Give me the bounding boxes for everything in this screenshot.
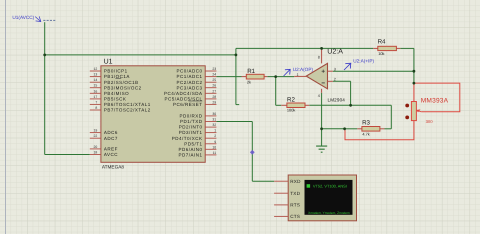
U1 left pin 14 PB2/SS/OC1B <box>90 81 101 83</box>
svg-text:VT52, VT100, ANSI: VT52, VT100, ANSI <box>313 184 347 189</box>
wire pot top (red) <box>413 83 415 101</box>
IC U1 ATMEGA8 body <box>101 66 205 163</box>
svg-text:PC1/ADC1: PC1/ADC1 <box>176 74 202 79</box>
overline SS on PB2 <box>115 78 121 80</box>
svg-text:PB0/ICP1: PB0/ICP1 <box>104 69 128 74</box>
wire PC1 to R1 <box>216 76 241 78</box>
svg-text:15: 15 <box>94 84 98 88</box>
svg-text:17: 17 <box>94 95 98 99</box>
wire top rail to R4 <box>236 47 373 49</box>
U1 right pin 23 PC0/ADC0 <box>205 70 216 72</box>
junction <box>274 75 277 78</box>
svg-text:CTS: CTS <box>290 214 300 219</box>
resistor R1 pins <box>242 76 247 78</box>
wire R3 left to ground rail <box>345 128 358 130</box>
U1 left pin 20 AREF <box>90 148 101 150</box>
U1 right pin 24 PC1/ADC1 <box>205 76 216 78</box>
terminal cursor block <box>307 184 311 188</box>
svg-text:25: 25 <box>212 78 216 82</box>
svg-text:29: 29 <box>212 100 216 104</box>
wire marker diamond <box>250 150 255 155</box>
svg-text:PB5/SCK: PB5/SCK <box>104 97 127 102</box>
op-amp plus sign <box>322 70 325 73</box>
svg-text:300: 300 <box>426 119 434 124</box>
virtual terminal screen <box>305 180 353 215</box>
svg-text:8: 8 <box>318 56 320 60</box>
svg-text:U2:A(+IP): U2:A(+IP) <box>353 59 374 64</box>
op-amp minus sign <box>322 82 325 84</box>
svg-text:7: 7 <box>95 100 97 104</box>
svg-text:PB7/TOSC2/XTAL2: PB7/TOSC2/XTAL2 <box>104 108 151 113</box>
resistor R2 <box>287 103 305 108</box>
wire rail jog up <box>235 48 237 55</box>
resistor R4 <box>378 46 397 50</box>
sheet border <box>5 0 7 234</box>
terminal pin RTS <box>274 204 288 206</box>
U1 right pin 11 PD7/AIN1 <box>205 154 216 156</box>
svg-text:PC2/ADC2: PC2/ADC2 <box>176 80 202 85</box>
svg-text:ADC6: ADC6 <box>104 130 118 135</box>
U1 right pin 1 PD3/INT1 <box>205 132 216 134</box>
wire AVCC down left <box>44 55 46 155</box>
svg-text:14: 14 <box>94 78 98 82</box>
svg-text:11: 11 <box>213 151 217 155</box>
svg-text:AVCC: AVCC <box>104 152 118 157</box>
svg-text:ATMEGA8: ATMEGA8 <box>102 165 124 170</box>
svg-text:10k: 10k <box>378 51 384 56</box>
svg-text:R4: R4 <box>378 39 386 46</box>
svg-text:RXD: RXD <box>290 179 301 184</box>
svg-text:PB6/TOSC1/XTAL1: PB6/TOSC1/XTAL1 <box>104 102 151 107</box>
U1 right pin 28 PC5/ADC5/SCL <box>205 98 216 100</box>
svg-text:22: 22 <box>94 134 98 138</box>
wire op-amp pin3 to pot node <box>333 70 414 72</box>
U1 right pin 30 PD0/RXD <box>205 115 216 117</box>
svg-text:PD4/T0/XCK: PD4/T0/XCK <box>172 136 203 141</box>
svg-text:LM2904: LM2904 <box>328 97 346 102</box>
U1 left pin 12 PB0/ICP1 <box>90 70 101 72</box>
overline RESET on PC6 <box>189 100 203 102</box>
svg-text:2: 2 <box>334 78 336 82</box>
svg-text:12: 12 <box>94 67 98 71</box>
terminal pin CTS <box>274 215 288 217</box>
wire R2 right run <box>309 104 391 106</box>
U1 right pin 29 PC6/RESET <box>205 103 216 105</box>
op-amp input pin 2 stub <box>328 80 333 82</box>
junction <box>235 54 238 57</box>
U1 left pin 22 ADC7 <box>90 137 101 139</box>
svg-text:24: 24 <box>212 73 216 77</box>
U1 left pin 18 AVCC <box>90 154 101 156</box>
svg-text:2: 2 <box>214 134 216 138</box>
svg-text:U2:A: U2:A <box>327 48 343 55</box>
svg-text:10: 10 <box>212 145 216 149</box>
wire PD1 TXD to terminal <box>216 121 252 123</box>
wire AVCC rail horizontal <box>45 54 236 56</box>
potentiometer MM393A body <box>411 102 416 121</box>
junction <box>343 127 346 130</box>
svg-text:PD2/INT0: PD2/INT0 <box>179 125 203 130</box>
svg-text:R2: R2 <box>287 96 295 103</box>
U1 right pin 26 PC3/ADC3 <box>205 87 216 89</box>
resistor R2 pins <box>281 104 287 106</box>
svg-text:1: 1 <box>214 129 216 133</box>
wire pot bottom to ground node (red) <box>345 121 414 140</box>
svg-text:PD5/T1: PD5/T1 <box>184 141 202 146</box>
svg-text:32: 32 <box>212 123 216 127</box>
svg-text:U1(AVCC): U1(AVCC) <box>12 15 34 20</box>
wire AVCC power drop <box>44 22 46 55</box>
U1 left pin 19 ADC6 <box>90 132 101 134</box>
junction <box>43 54 46 57</box>
svg-text:TXD: TXD <box>290 191 300 196</box>
svg-text:27: 27 <box>212 89 216 93</box>
U1 left pin 7 PB6/TOSC1/XTAL1 <box>90 103 101 105</box>
svg-text:100k: 100k <box>287 108 295 113</box>
resistor R1 <box>246 74 264 79</box>
svg-text:1: 1 <box>297 73 299 77</box>
svg-text:4: 4 <box>318 94 320 98</box>
svg-text:PD7/AIN1: PD7/AIN1 <box>178 153 202 158</box>
wire op-amp V- to ground <box>321 93 323 146</box>
wire output node down <box>275 77 277 106</box>
junction <box>320 127 323 130</box>
svg-text:26: 26 <box>212 84 216 88</box>
op-amp V+ pin 8 <box>321 48 323 63</box>
svg-text:PB3/MOSI/OC2: PB3/MOSI/OC2 <box>104 85 142 90</box>
wire R4 right down <box>400 47 414 49</box>
U1 right pin 32 PD2/INT0 <box>205 126 216 128</box>
svg-text:PC4/ADC4/SDA: PC4/ADC4/SDA <box>164 91 203 96</box>
svg-text:PD6/AIN0: PD6/AIN0 <box>178 147 202 152</box>
svg-text:30: 30 <box>212 112 216 116</box>
svg-text:PC6/RESET: PC6/RESET <box>173 102 203 107</box>
resistor R4 pins <box>373 47 378 49</box>
U1 left pin 15 PB3/MOSI/OC2 <box>90 87 101 89</box>
svg-text:18: 18 <box>94 151 98 155</box>
svg-text:PD3/INT1: PD3/INT1 <box>179 130 203 135</box>
op-amp output pin 1 <box>294 75 306 77</box>
svg-text:Xmodem, Ymodem, Zmodem: Xmodem, Ymodem, Zmodem <box>308 211 350 215</box>
U1 left pin 17 PB5/SCK <box>90 98 101 100</box>
junction <box>349 104 352 107</box>
U1 right pin 27 PC4/ADC4/SDA <box>205 92 216 94</box>
wire to U1 AVCC pin <box>45 154 90 156</box>
svg-text:U2:A(OP): U2:A(OP) <box>293 67 314 72</box>
svg-text:16: 16 <box>94 89 98 93</box>
svg-text:19: 19 <box>94 129 98 133</box>
svg-text:AREF: AREF <box>104 147 118 152</box>
svg-text:PB2/SS/OC1B: PB2/SS/OC1B <box>104 80 139 85</box>
svg-text:R1: R1 <box>247 68 255 75</box>
svg-text:9: 9 <box>214 140 216 144</box>
svg-text:MM393A: MM393A <box>421 98 449 105</box>
junction <box>413 82 416 85</box>
svg-text:4.7k: 4.7k <box>362 132 369 137</box>
svg-text:U1: U1 <box>104 59 113 66</box>
svg-text:PD0/RXD: PD0/RXD <box>179 114 202 119</box>
wire to R2 left <box>276 104 282 106</box>
svg-text:ADC7: ADC7 <box>104 136 118 141</box>
U1 right pin 9 PD5/T1 <box>205 143 216 145</box>
resistor R3 <box>362 127 380 132</box>
U1 right pin 2 PD4/T0/XCK <box>205 137 216 139</box>
svg-text:3: 3 <box>334 67 336 71</box>
wire op-amp pin2 feedback <box>333 80 351 82</box>
wire rail stub down <box>235 55 237 105</box>
junction <box>320 47 323 50</box>
svg-text:13: 13 <box>94 73 98 77</box>
svg-text:2k: 2k <box>247 80 251 85</box>
potentiometer adjust buttons <box>405 104 409 108</box>
svg-text:23: 23 <box>212 67 216 71</box>
net label U2:A(OP) <box>284 69 291 76</box>
wire R1 to op-amp output <box>267 76 294 78</box>
junction <box>413 70 416 73</box>
terminal pin RXD <box>274 180 288 182</box>
svg-text:RTS: RTS <box>290 203 300 208</box>
svg-text:31: 31 <box>212 118 216 122</box>
U1 left pin 16 PB4/MISO <box>90 92 101 94</box>
svg-text:PC3/ADC3: PC3/ADC3 <box>176 85 202 90</box>
svg-text:R3: R3 <box>362 120 370 127</box>
svg-text:28: 28 <box>212 95 216 99</box>
wire pot wiper loop (red) <box>414 83 460 112</box>
virtual terminal body <box>288 175 356 221</box>
U1 left pin 8 PB7/TOSC2/XTAL2 <box>90 109 101 111</box>
op-amp input pin 3 stub <box>328 70 333 72</box>
net label U2:A(+IP) <box>344 63 351 70</box>
svg-text:PC0/ADC0: PC0/ADC0 <box>176 69 202 74</box>
op-amp U2:A body <box>306 63 327 88</box>
svg-text:20: 20 <box>94 145 98 149</box>
svg-text:PD1/TXD: PD1/TXD <box>180 119 203 124</box>
U1 right pin 25 PC2/ADC2 <box>205 81 216 83</box>
wire down to R3 right <box>390 105 392 129</box>
resistor R3 pins <box>357 128 362 130</box>
svg-text:PB4/MISO: PB4/MISO <box>104 91 129 96</box>
svg-text:8: 8 <box>95 106 97 110</box>
ground symbol <box>316 146 327 152</box>
op-amp V- pin 4 <box>321 89 323 93</box>
terminal pin TXD <box>274 192 288 194</box>
U1 right pin 10 PD6/AIN0 <box>205 148 216 150</box>
U1 right pin 31 PD1/TXD <box>205 121 216 123</box>
U1 left pin 13 PB1/OC1A <box>90 76 101 78</box>
